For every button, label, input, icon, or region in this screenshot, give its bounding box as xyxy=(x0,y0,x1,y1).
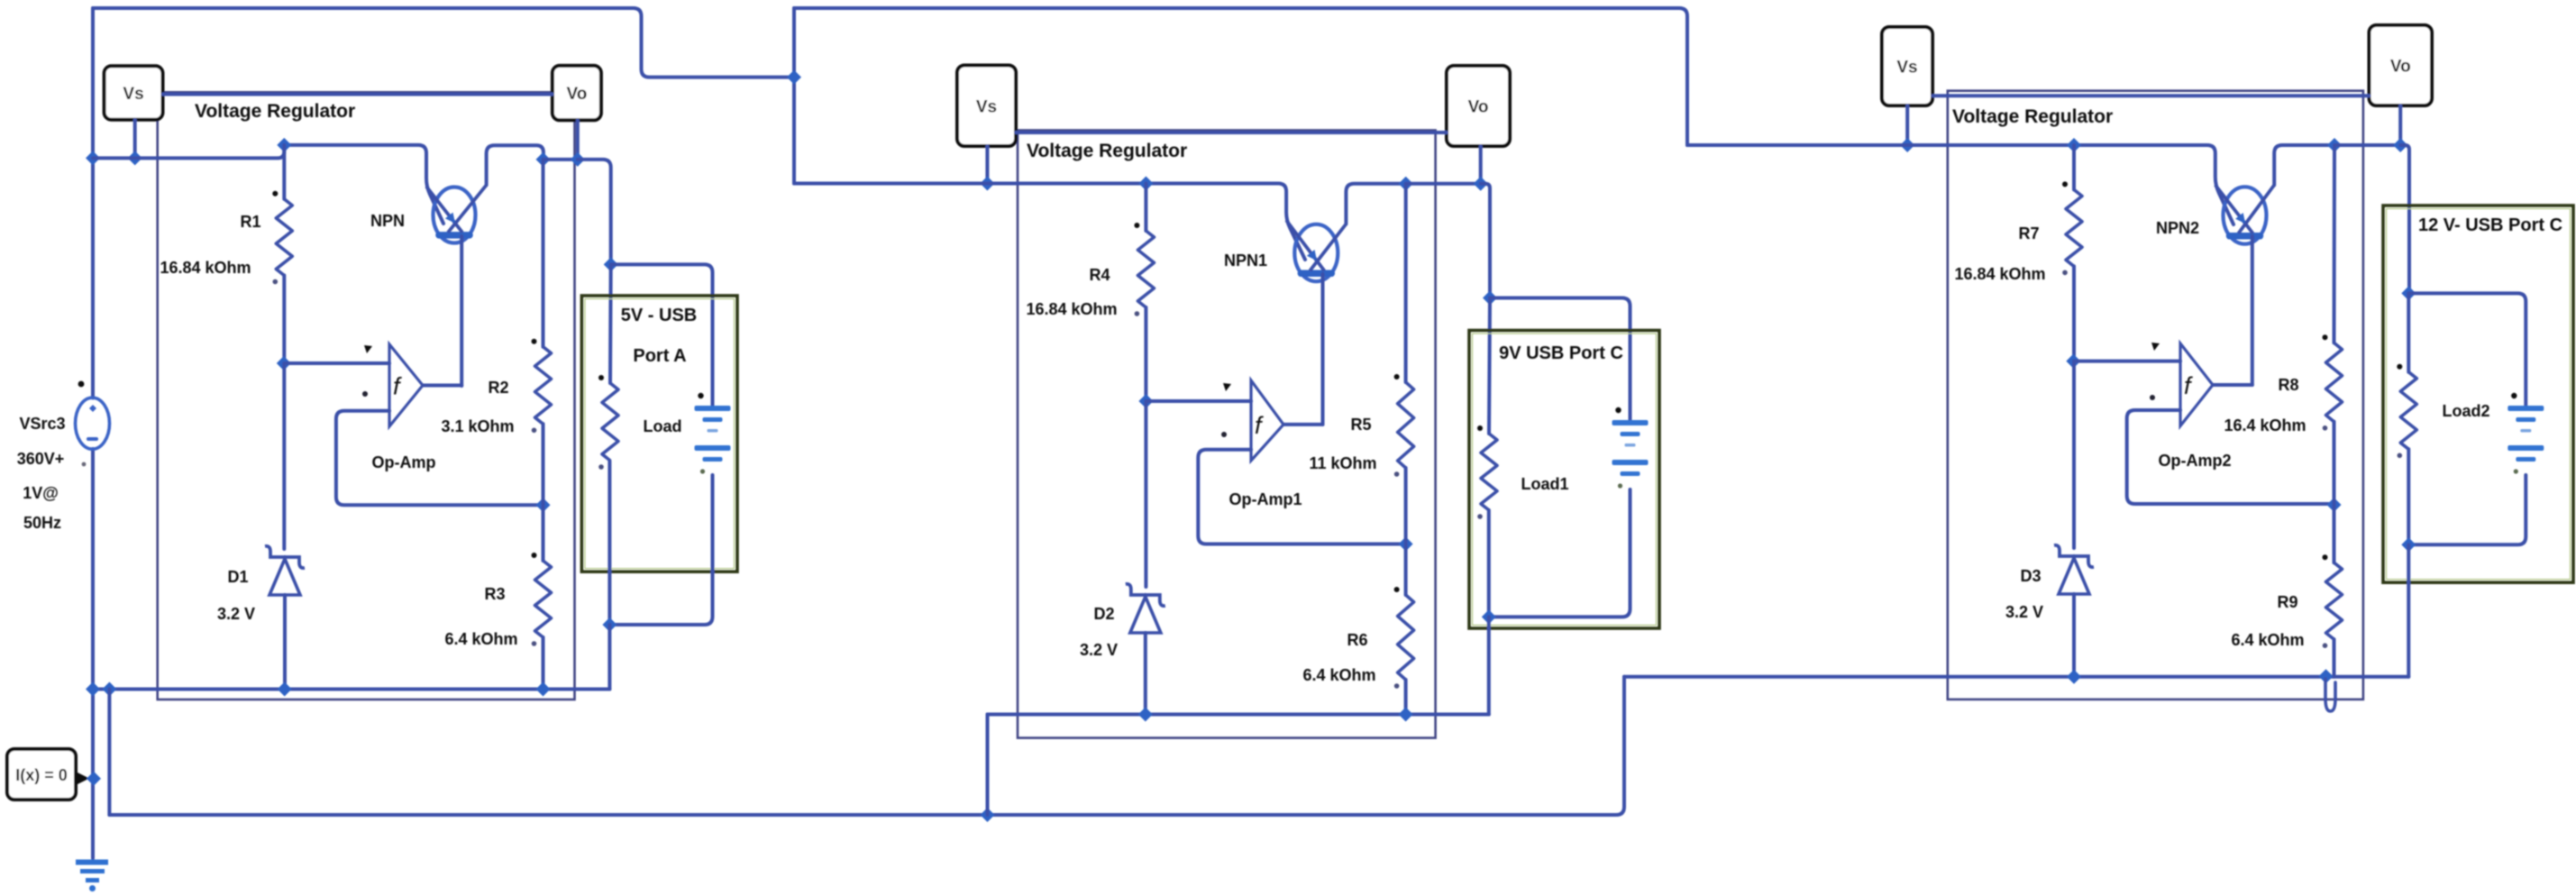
svg-text:R3: R3 xyxy=(484,585,505,603)
svg-text:16.84 kOhm: 16.84 kOhm xyxy=(1954,265,2045,283)
resistor R3 xyxy=(532,553,552,646)
svg-text:D3: D3 xyxy=(2020,567,2041,585)
label Op-Amp xyxy=(372,453,436,471)
label 9V USB Port C xyxy=(1499,343,1623,363)
wire Load1 return to bottom bus xyxy=(1487,617,1491,714)
label VSrc3 xyxy=(19,415,65,433)
resistor Load xyxy=(598,375,618,470)
value R6 6.4 kOhm xyxy=(1302,666,1375,684)
wire op-amp 2 plus input xyxy=(2074,360,2180,363)
wire load top lead xyxy=(608,264,613,383)
junction bottom bus on left rail xyxy=(86,682,100,697)
junction Vs2 pin on bus xyxy=(980,177,994,191)
wire R5 bottom to feedback node xyxy=(1404,468,1408,544)
label voltage regulator 1 xyxy=(195,101,355,122)
voltage regulator 2 boundary box xyxy=(1018,131,1436,738)
wire output to 9V port feed xyxy=(1481,184,1490,298)
wire R4 top lead xyxy=(1144,184,1147,232)
junction load branch node xyxy=(604,257,618,271)
label voltage regulator 2 xyxy=(1027,141,1187,161)
junction I probe on left rail xyxy=(87,772,101,786)
zener diode D2 xyxy=(1126,584,1165,633)
wire Load2 top lead xyxy=(2407,293,2410,371)
svg-text:3.2 V: 3.2 V xyxy=(1080,641,1118,659)
wire op-amp 1 output to base xyxy=(1283,423,1323,426)
svg-text:D1: D1 xyxy=(227,568,248,586)
wire feed to battery 1 drop xyxy=(1490,298,1631,423)
svg-text:Load1: Load1 xyxy=(1521,475,1568,493)
svg-text:R1: R1 xyxy=(240,213,260,231)
wire op-amp output to base xyxy=(423,384,461,388)
wire R2 bottom to feedback node xyxy=(542,424,545,505)
zener diode D3 xyxy=(2054,545,2094,594)
wire R6 bottom to bottom bus xyxy=(1404,680,1408,715)
wire Load1 top lead xyxy=(1489,298,1490,434)
svg-text:3.2 V: 3.2 V xyxy=(2005,603,2043,621)
wire Vo3 pin xyxy=(2398,105,2402,145)
wire bottom bus drop to rail xyxy=(986,715,990,816)
node Vs probe 1 xyxy=(105,66,163,119)
label D1 xyxy=(227,568,248,586)
resistor R9 xyxy=(2323,554,2343,648)
wire R8 top lead xyxy=(2333,145,2337,343)
junction feedback node between R2 R3 xyxy=(536,498,551,512)
svg-text:11 kOhm: 11 kOhm xyxy=(1309,454,1376,472)
value R3 6.4 kOhm xyxy=(444,630,517,648)
label R4 xyxy=(1089,266,1110,284)
junction top feed node xyxy=(787,70,801,85)
wire feed to battery 2 drop xyxy=(2408,293,2526,407)
junction Vs1 pin on bus xyxy=(128,151,142,165)
wire R9 bottom to bottom bus xyxy=(2333,639,2336,677)
op-amp 1 input polarity marks xyxy=(362,345,372,397)
label Load2 xyxy=(2442,402,2489,420)
wire Vs2 pin down to bus xyxy=(985,146,989,184)
wire feedback node to R9 xyxy=(2333,505,2336,562)
wire battery 2 bottom lead xyxy=(2408,475,2526,544)
voltage regulator 1 boundary box xyxy=(158,92,575,699)
svg-text:Voltage Regulator: Voltage Regulator xyxy=(1952,106,2113,127)
resistor R2 xyxy=(532,339,552,433)
svg-text:NPN2: NPN2 xyxy=(2156,219,2199,237)
wire NPN emitter riser xyxy=(487,145,544,185)
battery load 2 xyxy=(2507,393,2544,474)
label D2 xyxy=(1093,605,1114,623)
value R5 11 kOhm xyxy=(1309,454,1376,472)
value D1 3.2 V xyxy=(217,605,255,623)
svg-text:16.84 kOhm: 16.84 kOhm xyxy=(160,259,251,277)
wire load return to bottom bus xyxy=(607,625,611,690)
op-amp U1 xyxy=(389,344,423,426)
svg-text:Vs: Vs xyxy=(123,85,143,104)
wire vertical feed to block 2 bus xyxy=(792,8,796,184)
op-amp U2 xyxy=(1251,380,1283,461)
wire Load2 return to bottom bus xyxy=(2407,544,2410,677)
svg-text:16.84 kOhm: 16.84 kOhm xyxy=(1026,300,1117,318)
junction block 2 return on rail xyxy=(981,808,995,822)
junction bottom bus rail drop xyxy=(102,682,116,697)
transistor NPN2 xyxy=(2215,185,2274,243)
wire op-amp 2 minus feedback loop xyxy=(2127,410,2334,504)
junction Load1 return node xyxy=(1482,609,1496,624)
wire op-amp 1 plus input xyxy=(1146,399,1251,403)
probe I(x)=0 box xyxy=(7,749,89,800)
wire R4 bottom to op-amp plus node xyxy=(1144,307,1147,401)
resistor R5 xyxy=(1394,374,1414,477)
junction feedback node between R5 R6 xyxy=(1399,537,1413,552)
svg-text:Vo: Vo xyxy=(566,85,587,104)
op-amp U3 xyxy=(2180,343,2213,426)
wire to Vo2 pin node xyxy=(1406,182,1481,186)
junction R5 top node xyxy=(1399,177,1413,191)
junction R3 bottom on bus xyxy=(536,682,551,697)
open stub curl below R9 node xyxy=(2325,679,2335,711)
wire R8 bottom to feedback node xyxy=(2333,422,2336,505)
wire output node to Vo1 pin node xyxy=(544,158,578,161)
label R9 xyxy=(2277,593,2297,611)
wire R2 top lead xyxy=(542,160,545,347)
wire D1 anode to bottom bus xyxy=(283,595,287,690)
label NPN2 xyxy=(2156,219,2199,237)
wire Vs3 to Vo3 xyxy=(1932,94,2370,97)
label R1 xyxy=(240,213,260,231)
svg-text:I(x) = 0: I(x) = 0 xyxy=(15,766,68,784)
op-amp 2 input polarity marks xyxy=(1221,383,1231,437)
wire NPN base drive from op-amp output xyxy=(460,236,463,386)
junction D3 bottom on bus 3 xyxy=(2067,670,2081,684)
svg-text:Op-Amp: Op-Amp xyxy=(372,453,436,471)
wire top rail from source to first junction xyxy=(93,8,792,78)
junction 12V port feed node xyxy=(2401,286,2416,300)
wire NPN1 emitter riser xyxy=(1346,184,1405,224)
value R2 3.1 kOhm xyxy=(441,417,514,435)
wire D2 anode to bottom bus xyxy=(1144,633,1147,715)
value R8 16.4 kOhm xyxy=(2224,416,2306,434)
svg-text:Op-Amp1: Op-Amp1 xyxy=(1229,490,1302,508)
svg-text:3.1 kOhm: 3.1 kOhm xyxy=(441,417,514,435)
svg-text:NPN1: NPN1 xyxy=(1224,251,1267,270)
svg-text:6.4 kOhm: 6.4 kOhm xyxy=(1302,666,1375,684)
svg-text:Vo: Vo xyxy=(1468,98,1489,117)
svg-text:Load2: Load2 xyxy=(2442,402,2489,420)
wire input bus block 1 xyxy=(93,145,284,159)
wire bottom bus block 2 xyxy=(988,713,1489,717)
value 360V+ xyxy=(17,450,65,468)
label R8 xyxy=(2278,376,2298,394)
wire Vs1 pin down to bus xyxy=(133,120,137,159)
svg-text:R8: R8 xyxy=(2278,376,2298,394)
svg-text:R4: R4 xyxy=(1089,266,1110,284)
svg-text:Vs: Vs xyxy=(1896,59,1917,78)
wire lower return rail xyxy=(109,677,1624,815)
node Vs probe 3 xyxy=(1882,27,1932,105)
value 50Hz xyxy=(23,514,61,532)
wire input bus block 3 xyxy=(1687,145,2233,224)
label 5V - USB xyxy=(621,306,697,325)
wire bottom bus block 3 xyxy=(1624,675,2408,679)
svg-text:1V@: 1V@ xyxy=(23,484,59,502)
svg-text:6.4 kOhm: 6.4 kOhm xyxy=(2231,631,2304,649)
label Load1 xyxy=(1521,475,1568,493)
wire load branch to battery drop xyxy=(611,264,713,407)
node Vo probe 1 xyxy=(553,66,601,120)
junction Vo3 pin node xyxy=(2393,138,2407,152)
svg-text:R5: R5 xyxy=(1350,416,1371,434)
junction feedback node between R8 R9 xyxy=(2327,498,2342,512)
junction D2 bottom on bus 2 xyxy=(1138,708,1153,722)
svg-text:12 V- USB Port C: 12 V- USB Port C xyxy=(2418,215,2562,235)
wire bottom bus block 1 xyxy=(93,688,609,691)
svg-text:6.4 kOhm: 6.4 kOhm xyxy=(444,630,517,648)
wire R7 top lead xyxy=(2072,145,2076,189)
wire Vo2 pin xyxy=(1479,146,1483,184)
label NPN xyxy=(370,212,405,230)
svg-text:Load: Load xyxy=(644,417,682,435)
wire to Vo3 pin node xyxy=(2334,143,2400,147)
wire main left rail lower xyxy=(91,449,95,858)
value R7 16.84 kOhm xyxy=(1954,265,2045,283)
wire NPN2 base drive xyxy=(2251,236,2254,385)
wire R7 bottom to op-amp plus node xyxy=(2072,266,2076,361)
junction R6 bottom on bus 2 xyxy=(1399,708,1413,722)
label D3 xyxy=(2020,567,2041,585)
junction R1 top node xyxy=(277,138,291,152)
wire op-amp 2 output to base xyxy=(2213,383,2252,387)
ground xyxy=(76,863,108,892)
wire R3 bottom to bottom bus xyxy=(542,637,545,690)
wire battery A bottom lead xyxy=(609,475,712,625)
wire rail drop to lower return rail xyxy=(107,690,111,816)
label R5 xyxy=(1350,416,1371,434)
wire input bus block 2 xyxy=(794,184,1305,261)
value R1 16.84 kOhm xyxy=(160,259,251,277)
svg-text:Op-Amp2: Op-Amp2 xyxy=(2159,452,2232,470)
wire plus node to D3 xyxy=(2072,361,2076,548)
label Op-Amp1 xyxy=(1229,490,1302,508)
wire main left rail upper xyxy=(91,8,95,398)
junction op-amp plus input node xyxy=(277,356,291,370)
junction Load2 return node xyxy=(2401,537,2416,552)
svg-text:3.2 V: 3.2 V xyxy=(217,605,255,623)
resistor R1 xyxy=(272,191,292,285)
load box 12V USB Port C xyxy=(2383,206,2573,582)
junction bus1 on left rail xyxy=(86,151,100,165)
junction D1 bottom on bus xyxy=(278,682,292,697)
wire op-amp minus feedback loop xyxy=(336,411,544,506)
transistor NPN xyxy=(426,185,487,242)
svg-text:50Hz: 50Hz xyxy=(23,514,61,532)
svg-text:R9: R9 xyxy=(2277,593,2297,611)
battery load A xyxy=(695,393,731,474)
wire Vs1 to Vo1 xyxy=(163,93,553,96)
junction emitter output node xyxy=(536,152,551,167)
wire Vs2 to Vo2 xyxy=(1016,131,1447,134)
wire R5 top lead xyxy=(1404,184,1408,382)
wire Load2 bottom lead xyxy=(2407,449,2410,544)
svg-text:360V+: 360V+ xyxy=(17,450,65,468)
wire output to 12V port feed xyxy=(2400,145,2409,293)
value 1V@ xyxy=(23,484,59,502)
zener diode D1 xyxy=(265,546,305,595)
svg-text:Vs: Vs xyxy=(976,97,997,116)
wire R1 bottom to op-amp plus node xyxy=(282,276,286,364)
wire NPN1 base drive xyxy=(1321,274,1325,425)
resistor R8 xyxy=(2323,334,2343,430)
value D2 3.2 V xyxy=(1080,641,1118,659)
node Vo probe 3 xyxy=(2370,25,2433,105)
junction R4 top node xyxy=(1138,177,1153,191)
node Vo probe 2 xyxy=(1447,66,1510,146)
resistor Load1 xyxy=(1477,425,1497,519)
wire NPN2 emitter riser xyxy=(2274,145,2334,185)
node Vs probe 2 xyxy=(957,66,1016,147)
wire plus node to D2 xyxy=(1144,401,1147,587)
junction Vs3 pin on bus xyxy=(1900,138,1914,152)
wire Load1 bottom lead xyxy=(1487,510,1491,617)
junction Vo2 pin node xyxy=(1474,177,1488,191)
wire load bottom lead xyxy=(607,461,611,625)
label R2 xyxy=(488,379,508,397)
svg-text:9V USB Port C: 9V USB Port C xyxy=(1499,343,1623,363)
value R4 16.84 kOhm xyxy=(1026,300,1117,318)
wire plus node to D1 xyxy=(282,363,286,549)
label Load xyxy=(644,417,682,435)
svg-text:VSrc3: VSrc3 xyxy=(19,415,65,433)
junction load return node xyxy=(602,617,617,632)
load box 9V USB Port C xyxy=(1469,331,1659,629)
label Port A xyxy=(633,346,686,366)
wire battery 1 bottom lead xyxy=(1489,489,1631,617)
svg-text:R2: R2 xyxy=(488,379,508,397)
label 12 V- USB Port C xyxy=(2418,215,2562,235)
label R3 xyxy=(484,585,505,603)
svg-text:R7: R7 xyxy=(2018,224,2039,242)
resistor R7 xyxy=(2062,181,2082,275)
wire R1 top lead xyxy=(282,145,286,199)
junction 9V port feed node xyxy=(1483,291,1497,306)
wire op-amp plus input xyxy=(284,361,389,365)
svg-text:NPN: NPN xyxy=(370,212,405,230)
label NPN1 xyxy=(1224,251,1267,270)
load box 5V USB Port A xyxy=(581,296,737,571)
wire output node to load branch xyxy=(578,160,611,265)
wire bus raised segment to NPN collector xyxy=(284,145,443,224)
label R6 xyxy=(1347,631,1367,649)
wire top rail second segment to block 3 xyxy=(794,8,1687,145)
wire Vs3 pin down to bus xyxy=(1905,105,1909,145)
value R9 6.4 kOhm xyxy=(2231,631,2304,649)
svg-text:Vo: Vo xyxy=(2390,58,2411,77)
junction op-amp 1 plus input node xyxy=(1138,394,1153,408)
voltage regulator 3 boundary box xyxy=(1948,91,2363,699)
op-amp 3 input polarity marks xyxy=(2150,343,2160,400)
label R7 xyxy=(2018,224,2039,242)
junction R8 top node xyxy=(2327,138,2342,152)
wire Vo1 pin xyxy=(576,120,580,160)
wire D3 anode to bottom bus xyxy=(2072,594,2076,677)
junction op-amp 2 plus input node xyxy=(2066,354,2080,369)
junction R7 top node xyxy=(2067,138,2081,152)
svg-text:D2: D2 xyxy=(1093,605,1114,623)
resistor R6 xyxy=(1394,587,1414,689)
resistor R4 xyxy=(1134,223,1154,316)
svg-text:Voltage Regulator: Voltage Regulator xyxy=(195,101,355,122)
label voltage regulator 3 xyxy=(1952,106,2113,127)
transistor NPN1 xyxy=(1286,220,1346,281)
label Op-Amp2 xyxy=(2159,452,2232,470)
svg-text:Voltage Regulator: Voltage Regulator xyxy=(1027,141,1187,161)
resistor Load2 xyxy=(2397,364,2416,458)
junction Vo1 pin node xyxy=(571,152,585,167)
junction R9 bottom on bus 3 xyxy=(2319,669,2334,683)
wire feedback node to R6 xyxy=(1404,544,1408,596)
value D3 3.2 V xyxy=(2005,603,2043,621)
voltage source VSrc3 xyxy=(76,381,110,467)
svg-text:R6: R6 xyxy=(1347,631,1367,649)
wire op-amp 1 minus feedback loop xyxy=(1198,450,1405,544)
svg-text:16.4 kOhm: 16.4 kOhm xyxy=(2224,416,2306,434)
battery load 1 xyxy=(1612,407,1649,489)
svg-text:5V - USB: 5V - USB xyxy=(621,306,697,325)
wire feedback node to R3 xyxy=(542,505,545,561)
svg-text:Port A: Port A xyxy=(633,346,686,366)
